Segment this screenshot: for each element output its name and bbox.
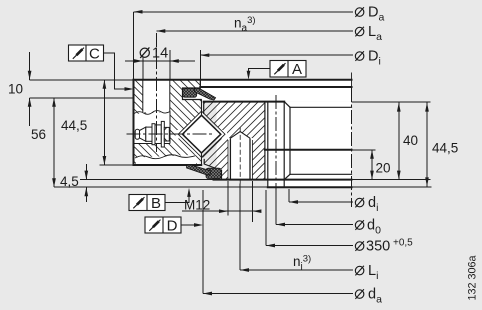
svg-text:A: A [292, 61, 302, 78]
svg-text:20: 20 [376, 161, 391, 176]
svg-text:40: 40 [403, 133, 418, 148]
svg-text:44,5: 44,5 [432, 141, 458, 156]
svg-text:B: B [151, 195, 161, 212]
svg-text:4,5: 4,5 [60, 174, 79, 189]
svg-text:C: C [89, 46, 100, 63]
svg-text:56: 56 [31, 127, 46, 142]
svg-text:44,5: 44,5 [61, 118, 87, 133]
svg-text:132 306a: 132 306a [467, 255, 479, 300]
svg-text:10: 10 [8, 82, 23, 97]
svg-text:14: 14 [152, 46, 168, 62]
svg-text:D: D [167, 218, 178, 235]
svg-text:M12: M12 [184, 198, 210, 213]
